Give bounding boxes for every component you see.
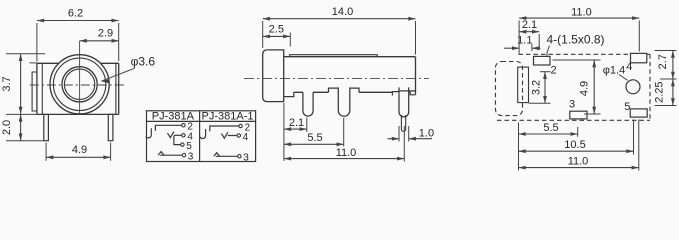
dimension 2.0 pin length, left view	[20, 114, 22, 140]
svg-text:2.9: 2.9	[98, 28, 113, 40]
svg-text:2.7: 2.7	[657, 54, 669, 69]
left view: body interior edge left	[41, 63, 43, 114]
dimension 5.5, footprint bottom	[519, 133, 578, 135]
side view: threaded barrel bushing	[263, 50, 284, 102]
svg-text:3.2: 3.2	[530, 80, 542, 95]
left view: body interior edge right	[115, 63, 117, 114]
dimension 2.9 centre offset, left view	[80, 40, 119, 42]
svg-text:6.2: 6.2	[68, 7, 83, 19]
PJ-381A schematic: terminal 4 contact circle	[182, 134, 185, 137]
left view: outer barrel circle of jack front view	[50, 55, 109, 114]
svg-text:4-(1.5x0.8): 4-(1.5x0.8)	[547, 33, 605, 47]
type table outer frame	[147, 111, 256, 162]
dimension 14.0 overall length, side view	[263, 18, 416, 20]
svg-text:3: 3	[243, 153, 249, 164]
dimension 10.5, footprint bottom	[519, 150, 634, 152]
footprint view: pad 4	[631, 53, 647, 62]
PJ-381A schematic: wire to terminal 4	[174, 134, 182, 136]
PJ-381A-1 schematic: terminal 3 contact circle	[238, 155, 241, 158]
side view: pin 3 narrow tail	[401, 115, 405, 131]
dimension 11.0 pad span, footprint top	[519, 17, 639, 19]
svg-text:4.9: 4.9	[72, 144, 87, 156]
svg-text:2: 2	[551, 64, 557, 76]
svg-text:3: 3	[188, 151, 194, 162]
PJ-381A schematic: terminal 2 contact circle	[182, 124, 185, 127]
dimension 4.9 pin spacing, left view	[46, 156, 111, 158]
side view: cover lid strip on top	[290, 55, 378, 57]
left view: body top edge extension tick	[30, 62, 37, 64]
PJ-381A schematic: terminal 5 contact circle	[181, 143, 184, 146]
dimension 1.0 pin width, side view	[388, 138, 400, 140]
svg-text:φ1.4: φ1.4	[603, 64, 625, 76]
svg-text:2.25: 2.25	[653, 81, 665, 102]
side view: horizontal dash-dot centre line	[244, 78, 429, 80]
left view: jack hole circle inner	[64, 69, 94, 99]
dimension 2.5 barrel length, side view	[263, 35, 291, 37]
footprint view: pad 2	[534, 56, 551, 65]
side view: pin 3 (rear long pin)	[399, 87, 409, 116]
left view: left solder pin	[44, 114, 49, 140]
svg-text:2.5: 2.5	[269, 23, 284, 35]
svg-text:5: 5	[186, 141, 192, 152]
dimension 4.9 pad row spacing, footprint	[593, 60, 595, 114]
PJ-381A-1 schematic: jack sleeve hook symbol	[200, 129, 205, 139]
left view: horizontal dash-dot centre line	[30, 84, 126, 86]
left view: right solder pin	[108, 114, 113, 140]
dimension 2.1, footprint top left	[519, 31, 539, 33]
svg-text:4.9: 4.9	[579, 81, 591, 96]
side view: housing body outline	[284, 57, 416, 95]
svg-text:φ3.6: φ3.6	[131, 54, 156, 68]
dimension 11.0, footprint bottom	[519, 167, 639, 169]
dimension 3.7 body height, left view	[20, 54, 22, 114]
footprint view: shield slot cutout	[518, 67, 529, 103]
svg-text:1.0: 1.0	[419, 128, 434, 140]
side view: pin 2 (middle pin)	[338, 87, 350, 116]
footprint view: hidden barrel outline (dashed rounded)	[496, 62, 523, 116]
label phi 3.6 hole with leader	[101, 68, 134, 81]
PJ-381A schematic: wire to terminal 3	[160, 154, 182, 156]
type table column divider	[199, 111, 201, 162]
svg-text:3.7: 3.7	[1, 76, 13, 91]
svg-text:2.0: 2.0	[1, 120, 13, 135]
dimension 3.2 slot height, footprint	[544, 72, 546, 104]
PJ-381A-1 schematic: wire to terminal 3	[216, 155, 238, 157]
svg-text:2.1: 2.1	[522, 19, 537, 31]
svg-text:14.0: 14.0	[332, 6, 353, 18]
PJ-381A schematic: ground caret contact	[158, 152, 164, 156]
PJ-381A-1 schematic: ground caret contact	[214, 153, 220, 157]
PJ-381A-1 schematic: wire to terminal 4	[228, 135, 237, 137]
footprint view: pad 3	[570, 111, 587, 119]
side view: pin 1 (front pin)	[303, 92, 313, 116]
PJ-381A schematic: switch check contact for terminal 4	[168, 132, 175, 138]
footprint view: hidden body outline bottom edge (dashed)	[497, 119, 650, 121]
PJ-381A schematic: wire to terminal 5	[174, 136, 181, 145]
svg-text:3: 3	[569, 99, 575, 111]
svg-text:1.1: 1.1	[517, 35, 532, 47]
svg-text:2.1: 2.1	[289, 117, 304, 129]
left view: jack hole circle (phi 3.6) outer	[62, 67, 97, 102]
svg-text:11.0: 11.0	[568, 156, 589, 168]
PJ-381A-1 schematic: wire to terminal 2	[210, 126, 239, 131]
footprint view: hidden body outline right edge (dashed)	[649, 54, 651, 120]
dimension 2.1 first pin offset, side view	[284, 128, 307, 130]
PJ-381A-1 schematic: terminal 2 contact circle	[239, 124, 242, 127]
dimension 11.0 rear pin offset, side view	[284, 158, 404, 160]
left view: vertical centre line through circle	[79, 41, 81, 114]
side view: pin 3 collar hook	[392, 92, 399, 96]
type table header row line	[147, 120, 256, 122]
svg-text:5.5: 5.5	[307, 132, 322, 144]
PJ-381A schematic: jack sleeve hook symbol	[146, 128, 151, 138]
footprint view: pad 5	[630, 109, 647, 117]
svg-text:4: 4	[243, 132, 249, 143]
footprint view: phi 1.4 hole circle	[626, 80, 640, 94]
left view: left mounting flange	[32, 72, 37, 111]
left view: barrel inner step circle	[53, 58, 105, 110]
PJ-381A schematic: wire to terminal 2	[155, 125, 181, 131]
dimension 1.1, footprint top left	[504, 47, 519, 49]
svg-text:11.0: 11.0	[571, 6, 592, 18]
dimension 5.5 middle pin offset, side view	[284, 143, 344, 145]
side view: bottom-right foot step	[410, 91, 415, 95]
svg-text:10.5: 10.5	[564, 139, 585, 151]
dimension 2.7 and 2.25 vertical chain, footprint right	[672, 51, 674, 106]
svg-text:5: 5	[624, 101, 630, 113]
side view: step under barrel	[284, 92, 294, 96]
svg-text:PJ-381A-1: PJ-381A-1	[202, 111, 254, 123]
dimension 6.2 overall width, left view	[37, 20, 119, 22]
PJ-381A schematic: terminal 3 contact circle	[182, 154, 185, 157]
footprint view: hidden body outline top edge (dashed)	[519, 53, 651, 55]
PJ-381A-1 schematic: switch check contact for terminal 4	[222, 132, 229, 138]
side view: pin 2 mounting collar	[329, 88, 360, 92]
svg-text:4: 4	[626, 61, 632, 73]
PJ-381A-1 schematic: terminal 4 contact circle	[237, 134, 240, 137]
svg-text:5.5: 5.5	[543, 122, 558, 134]
svg-text:11.0: 11.0	[336, 147, 357, 159]
left view: body housing outline	[37, 63, 119, 114]
